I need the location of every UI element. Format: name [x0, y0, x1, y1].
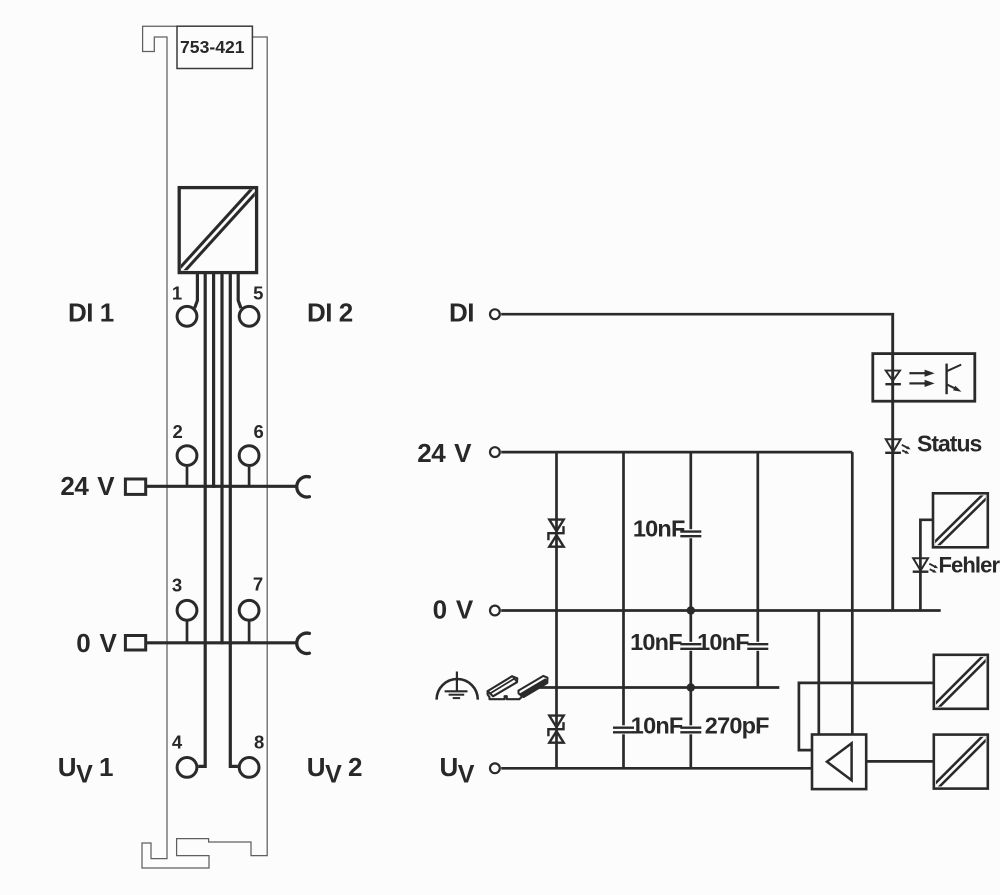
svg-text:24 V: 24 V — [417, 438, 472, 468]
svg-text:8: 8 — [254, 731, 264, 752]
svg-text:Status: Status — [917, 431, 982, 457]
svg-text:753-421: 753-421 — [180, 37, 245, 57]
svg-text:2: 2 — [172, 421, 182, 442]
svg-text:24 V: 24 V — [60, 471, 115, 501]
svg-text:270pF: 270pF — [705, 713, 769, 739]
svg-text:3: 3 — [172, 575, 182, 596]
svg-text:4: 4 — [172, 731, 183, 752]
svg-text:10nF: 10nF — [633, 515, 685, 541]
svg-text:10nF: 10nF — [631, 713, 683, 739]
svg-text:6: 6 — [254, 421, 264, 442]
svg-text:Fehler: Fehler — [939, 553, 1000, 578]
svg-text:10nF: 10nF — [697, 629, 749, 655]
svg-text:10nF: 10nF — [630, 629, 682, 655]
svg-text:1: 1 — [172, 282, 182, 303]
svg-text:DI 1: DI 1 — [68, 298, 114, 328]
svg-text:DI 2: DI 2 — [307, 298, 353, 328]
svg-text:0 V: 0 V — [76, 628, 117, 658]
svg-text:5: 5 — [253, 282, 263, 303]
svg-text:DI: DI — [449, 298, 474, 328]
svg-text:0 V: 0 V — [433, 595, 474, 625]
svg-text:7: 7 — [253, 574, 263, 595]
